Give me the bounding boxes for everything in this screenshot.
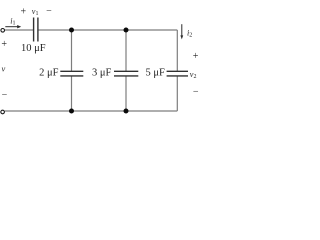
svg-text:+: + (1, 39, 7, 50)
svg-text:+: + (193, 51, 199, 62)
svg-text:v2: v2 (190, 70, 197, 80)
svg-text:i2: i2 (187, 28, 192, 38)
svg-text:5 μF: 5 μF (145, 68, 165, 79)
svg-text:v: v (2, 64, 6, 74)
svg-text:−: − (46, 6, 52, 17)
svg-text:i1: i1 (10, 17, 15, 27)
svg-text:v1: v1 (32, 7, 39, 17)
svg-text:+: + (20, 7, 26, 18)
svg-text:−: − (193, 87, 199, 98)
svg-text:10 μF: 10 μF (21, 43, 46, 54)
svg-text:−: − (2, 90, 8, 101)
svg-text:2 μF: 2 μF (39, 68, 59, 79)
svg-text:3 μF: 3 μF (92, 68, 112, 79)
